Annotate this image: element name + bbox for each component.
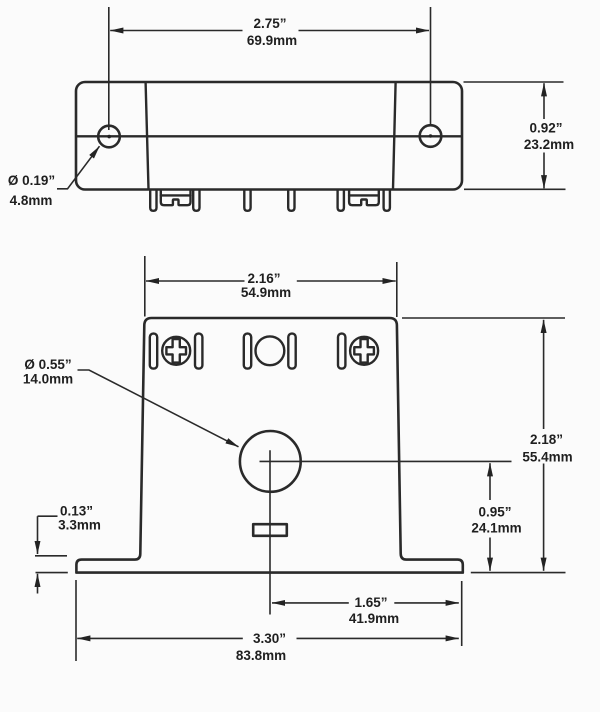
screw right [350,337,378,365]
mounting hole right [420,125,442,147]
top view horizontal centerline [77,135,462,137]
terminal tab 1 shoulder line [161,194,191,196]
vertical centerline [269,450,271,614]
svg-text:14.0mm: 14.0mm [23,372,73,387]
slot 5 [338,334,345,369]
pin 6 [384,190,390,211]
slot 4 [288,334,295,369]
dimension 2.18in lower arrow [543,464,545,571]
dimension 0.95in upper arrow [489,463,491,500]
svg-text:2.75”: 2.75” [253,16,286,31]
dimension 0.92in lower arrow [543,153,545,189]
dimension 3.30in left arrow [77,637,243,639]
terminal tab 2 shoulder line [349,194,379,196]
top view right section line [393,83,396,190]
dimension 0.92in upper arrow [543,83,545,119]
pin 1 [150,190,156,211]
extension line 2.16 left [144,256,146,317]
svg-text:1.65”: 1.65” [354,595,387,610]
svg-text:Ø 0.19”: Ø 0.19” [8,173,55,188]
center hole [240,431,301,492]
mounting hole left center dot [107,135,111,139]
svg-text:69.9mm: 69.9mm [247,33,297,48]
extension line body bottom right [464,188,566,190]
mounting hole left [98,126,120,148]
dimension 0.13 upper arrow [37,516,39,554]
extension line flange bottom right [471,572,566,574]
slot 1 [150,334,157,369]
terminal tab 1 [161,190,191,205]
screw left [162,337,190,365]
dimension 2.18in upper arrow [543,320,545,429]
dimension 1.65in right arrow [394,602,459,604]
dimension 3.30in right arrow [297,637,459,639]
extension line right hole [430,7,432,127]
front view body outline [76,318,462,573]
extension line below right [461,581,463,646]
svg-text:55.4mm: 55.4mm [522,450,572,465]
dimension line 2.75in [110,30,242,32]
screw left phillips cross [166,339,186,363]
svg-text:0.13”: 0.13” [60,504,93,519]
pin 3 [244,190,250,211]
dimension 0.13 lower arrow [37,574,39,594]
extension line flange top left [35,555,67,557]
extension line top right [402,317,565,319]
slot 3 [244,334,251,369]
svg-text:23.2mm: 23.2mm [524,137,574,152]
extension line body top right [464,81,564,83]
horizontal centerline to right [260,460,512,462]
pin 4 [288,190,294,211]
svg-text:4.8mm: 4.8mm [10,193,53,208]
terminal tab 2 [349,190,379,205]
extension line 2.16 right [396,262,398,317]
top view body [76,82,462,190]
leader diameter 0.55 [78,370,239,447]
dimension line 2.16in [146,280,245,282]
svg-text:Ø 0.55”: Ø 0.55” [24,357,71,372]
pin 2 [193,190,199,211]
extension line left hole [108,7,110,130]
top view left section line [146,83,149,190]
mounting hole right center dot [429,134,433,138]
svg-text:0.95”: 0.95” [478,505,511,520]
leader 0.13 bracket [38,515,58,517]
leader diameter 0.19 [57,146,100,189]
extension line flange bottom left [36,572,68,574]
svg-text:2.16”: 2.16” [247,271,280,286]
pin 5 [338,190,344,211]
svg-text:3.3mm: 3.3mm [58,518,101,533]
svg-text:83.8mm: 83.8mm [236,648,286,663]
dimension 0.95in lower arrow [489,538,491,571]
small slot below hole [253,524,287,536]
center window circle [256,336,285,365]
extension line below left [75,580,77,661]
screw right phillips cross [354,339,374,363]
svg-text:54.9mm: 54.9mm [241,285,291,300]
svg-text:41.9mm: 41.9mm [349,611,399,626]
svg-text:3.30”: 3.30” [253,631,286,646]
dimension 1.65in left arrow [272,602,349,604]
svg-text:2.18”: 2.18” [530,432,563,447]
svg-text:0.92”: 0.92” [529,121,562,136]
slot 2 [195,334,202,369]
svg-text:24.1mm: 24.1mm [471,521,521,536]
